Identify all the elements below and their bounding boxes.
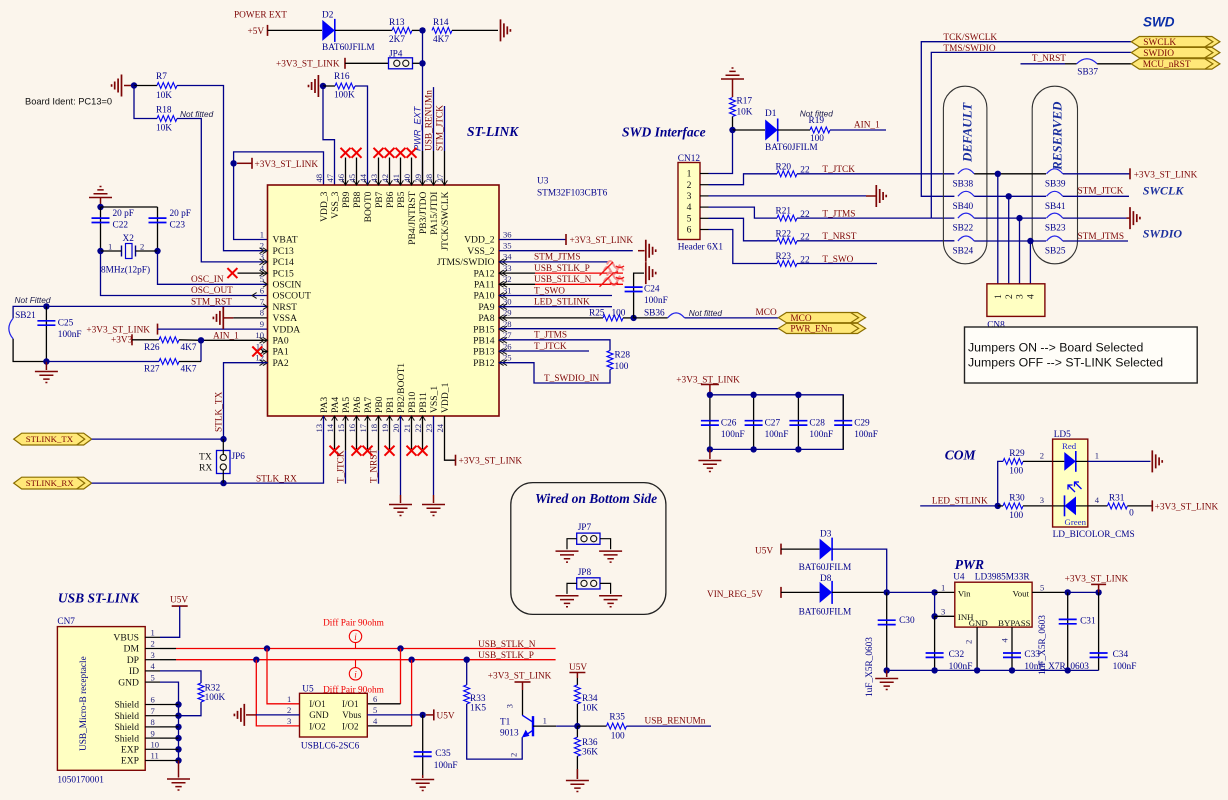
wire PA2 to JP6 (STLK_TX) bbox=[224, 363, 268, 439]
junction JP6 TX bbox=[220, 436, 226, 442]
svg-text:3: 3 bbox=[1040, 495, 1044, 505]
wire C31 vertical bbox=[1067, 592, 1069, 670]
svg-text:BYPASS: BYPASS bbox=[998, 618, 1031, 628]
svg-text:MCO: MCO bbox=[790, 314, 811, 324]
svg-text:C24: C24 bbox=[644, 285, 660, 295]
svg-text:SWD Interface: SWD Interface bbox=[622, 125, 706, 140]
svg-text:20 pF: 20 pF bbox=[113, 209, 134, 219]
junction JP4/PWR_EXT bbox=[419, 60, 425, 66]
pin arrow bottom 19 bbox=[387, 416, 393, 421]
wire R31 to +3V3 bbox=[1127, 505, 1152, 507]
ground (left of R16) bbox=[309, 75, 319, 97]
wire PB1 stub bbox=[389, 416, 391, 449]
svg-text:19: 19 bbox=[380, 424, 390, 433]
svg-text:2: 2 bbox=[151, 639, 155, 649]
ground stub C25 bbox=[45, 362, 47, 371]
svg-text:1050170001: 1050170001 bbox=[57, 776, 104, 786]
wire pin39 black stub bbox=[422, 151, 424, 185]
svg-text:10K: 10K bbox=[582, 703, 598, 713]
wire T_NRST to SB37 bbox=[1021, 63, 1066, 65]
svg-text:T_NRST: T_NRST bbox=[1032, 54, 1066, 64]
svg-text:T_NRST: T_NRST bbox=[370, 449, 380, 483]
wire PA4 stub bbox=[334, 416, 336, 449]
svg-text:1: 1 bbox=[941, 583, 945, 593]
junction C25 bottom bbox=[43, 358, 49, 364]
svg-text:D2: D2 bbox=[322, 10, 334, 20]
svg-text:STLK_TX: STLK_TX bbox=[215, 391, 225, 432]
svg-text:VDD_2: VDD_2 bbox=[464, 235, 495, 246]
svg-text:D8: D8 bbox=[820, 574, 832, 584]
ground (C35) bbox=[411, 780, 434, 791]
svg-text:PB11: PB11 bbox=[418, 392, 429, 413]
capacitor C25 bbox=[37, 321, 55, 325]
svg-text:1: 1 bbox=[151, 628, 155, 638]
svg-text:USB_STLK_N: USB_STLK_N bbox=[534, 275, 592, 285]
svg-text:CN7: CN7 bbox=[57, 617, 75, 627]
wire top pin stub bbox=[411, 158, 413, 186]
svg-text:BOOT0: BOOT0 bbox=[363, 191, 374, 222]
svg-text:STM32F103CBT6: STM32F103CBT6 bbox=[537, 189, 608, 199]
diff-pair marker (lower) bbox=[604, 272, 624, 285]
svg-text:RX: RX bbox=[199, 462, 212, 473]
diode D3 bbox=[820, 539, 833, 560]
svg-text:2: 2 bbox=[140, 242, 144, 252]
svg-text:100: 100 bbox=[1009, 467, 1023, 477]
svg-text:36: 36 bbox=[503, 229, 512, 239]
svg-text:VBAT: VBAT bbox=[273, 235, 298, 246]
ground (JP7 right) bbox=[599, 551, 622, 562]
svg-text:1: 1 bbox=[287, 694, 291, 704]
svg-text:LED_STLINK: LED_STLINK bbox=[534, 298, 590, 308]
wire SB25 STM_JTMS bbox=[1063, 240, 1128, 242]
svg-text:10: 10 bbox=[151, 740, 160, 750]
junction rail bottom bbox=[750, 446, 756, 452]
svg-text:17: 17 bbox=[358, 423, 368, 432]
svg-text:5: 5 bbox=[151, 672, 155, 682]
power port +3V3_ST_LINK (VDD_2) bbox=[565, 234, 567, 245]
svg-text:1: 1 bbox=[543, 716, 547, 726]
wire STM_RST to NRST pin7 bbox=[13, 306, 267, 318]
jumper JP7 bbox=[577, 533, 600, 544]
svg-text:C29: C29 bbox=[854, 418, 870, 428]
ground (R17 top) bbox=[721, 68, 744, 79]
svg-text:48: 48 bbox=[314, 174, 324, 183]
svg-text:DP: DP bbox=[127, 655, 139, 666]
svg-text:Red: Red bbox=[1062, 441, 1077, 451]
wire PA7 stub bbox=[367, 416, 369, 449]
svg-text:USB ST-LINK: USB ST-LINK bbox=[58, 591, 140, 606]
junction INH bbox=[931, 613, 937, 619]
svg-text:+3V3_ST_LINK: +3V3_ST_LINK bbox=[276, 60, 340, 70]
svg-text:4: 4 bbox=[373, 716, 378, 726]
ground stub CN7 bbox=[178, 761, 180, 778]
wire C23 vertical bbox=[157, 207, 159, 251]
svg-text:VSSA: VSSA bbox=[273, 313, 298, 324]
wire T1 collector bbox=[522, 690, 524, 715]
note circle i (upper) bbox=[349, 630, 361, 642]
svg-text:45: 45 bbox=[347, 174, 357, 183]
svg-text:PA3: PA3 bbox=[319, 397, 330, 413]
wire JP7 right to ground bbox=[600, 539, 611, 550]
ground lead R7 bbox=[124, 85, 134, 87]
diff-pair marker (upper) bbox=[604, 261, 624, 274]
pin arrow bottom 18 bbox=[376, 416, 382, 421]
wire VDD_2 to +3V3 bbox=[499, 239, 566, 241]
wire INH lead bbox=[935, 615, 955, 617]
svg-text:+3V3_ST_LINK: +3V3_ST_LINK bbox=[570, 236, 634, 246]
svg-text:100K: 100K bbox=[334, 91, 355, 101]
svg-text:100nF: 100nF bbox=[58, 330, 82, 340]
power port +3V3_ST_LINK (R31) bbox=[1151, 500, 1153, 511]
svg-text:+3V3_ST_LINK: +3V3_ST_LINK bbox=[1065, 575, 1129, 585]
wire JP6 bottom pin bbox=[222, 470, 224, 483]
svg-text:PA5: PA5 bbox=[341, 397, 352, 413]
svg-text:39: 39 bbox=[413, 174, 423, 183]
svg-text:PWR_ENn: PWR_ENn bbox=[790, 325, 832, 335]
svg-text:STM_RST: STM_RST bbox=[191, 297, 232, 307]
no-connect X pin17 bbox=[363, 446, 373, 456]
svg-text:6: 6 bbox=[151, 695, 156, 705]
junction R29/R30 bbox=[995, 503, 1001, 509]
svg-text:3: 3 bbox=[687, 191, 692, 202]
svg-text:100nF: 100nF bbox=[809, 430, 833, 440]
diode D1 bbox=[765, 120, 778, 141]
svg-text:STM_JTMS: STM_JTMS bbox=[534, 253, 581, 263]
svg-text:+3V3_ST_LINK: +3V3_ST_LINK bbox=[459, 457, 523, 467]
junction R7/R18 bbox=[131, 82, 137, 88]
svg-text:18: 18 bbox=[369, 424, 379, 433]
svg-text:13: 13 bbox=[314, 424, 324, 433]
pin arrow left 2 bbox=[260, 248, 268, 254]
svg-text:NRST: NRST bbox=[273, 302, 298, 313]
wire D8 to node bbox=[832, 591, 887, 593]
svg-text:+3V3_ST_LINK: +3V3_ST_LINK bbox=[1134, 170, 1198, 180]
wire STM_JTMS bbox=[499, 261, 610, 263]
svg-text:3: 3 bbox=[151, 650, 155, 660]
wire R23 dangling bbox=[797, 263, 877, 265]
svg-text:100: 100 bbox=[615, 362, 629, 372]
svg-text:2: 2 bbox=[509, 753, 519, 757]
svg-text:35: 35 bbox=[503, 241, 512, 251]
wire to R16 bbox=[323, 85, 335, 87]
svg-text:SB23: SB23 bbox=[1045, 224, 1066, 234]
pin arrow top 41 bbox=[398, 180, 404, 185]
no-connect X top pin bbox=[374, 148, 384, 158]
svg-text:I/O2: I/O2 bbox=[309, 721, 326, 731]
svg-text:6: 6 bbox=[373, 694, 378, 704]
svg-text:DEFAULT: DEFAULT bbox=[960, 102, 975, 163]
svg-text:5: 5 bbox=[1040, 583, 1044, 593]
svg-text:100nF: 100nF bbox=[644, 296, 668, 306]
svg-text:USB_RENUMn: USB_RENUMn bbox=[424, 90, 434, 151]
svg-text:R18: R18 bbox=[156, 106, 172, 116]
MCU U3 STM32F103CBT6 body bbox=[268, 185, 500, 416]
wire to CN8 pin 4 bbox=[1029, 241, 1031, 284]
capacitor C23 bbox=[149, 218, 167, 222]
junction C31 top bbox=[1065, 589, 1071, 595]
svg-text:4: 4 bbox=[151, 661, 156, 671]
svg-text:100: 100 bbox=[611, 731, 625, 741]
svg-text:USB_Micro-B receptacle: USB_Micro-B receptacle bbox=[79, 656, 89, 751]
svg-text:21: 21 bbox=[402, 424, 412, 433]
pin arrow right 30 bbox=[499, 304, 507, 310]
wire GND/shield vertical bbox=[160, 682, 179, 760]
wire top pin stub bbox=[356, 158, 358, 186]
wire D3 to Vin node bbox=[832, 549, 887, 592]
svg-text:16: 16 bbox=[347, 423, 357, 432]
svg-text:VSS_2: VSS_2 bbox=[467, 246, 494, 257]
ESD protection U5 USBLC6-2SC6 bbox=[300, 693, 368, 737]
svg-text:OSCIN: OSCIN bbox=[273, 280, 302, 291]
wire node to R35 bbox=[577, 725, 606, 727]
svg-text:SB39: SB39 bbox=[1045, 179, 1066, 189]
svg-text:SB21: SB21 bbox=[15, 311, 36, 321]
no-connect X top pin bbox=[341, 148, 351, 158]
solder bridge SB41 bbox=[1047, 191, 1063, 196]
svg-text:CN12: CN12 bbox=[678, 154, 701, 164]
solder bridge SB25 bbox=[1047, 236, 1063, 241]
regulator U4 LD3985M33R bbox=[955, 582, 1032, 627]
wire node up to R29 bbox=[998, 461, 1003, 506]
svg-text:R30: R30 bbox=[1009, 494, 1025, 504]
no-connect X top pin bbox=[396, 148, 406, 158]
junction R16/VSS_3 bbox=[320, 83, 326, 89]
wire VIN_REG_5V to D8 bbox=[781, 591, 820, 593]
svg-text:Not fitted: Not fitted bbox=[689, 308, 723, 318]
svg-text:PB15: PB15 bbox=[473, 324, 495, 335]
svg-text:8: 8 bbox=[151, 717, 155, 727]
junction rail bottom bbox=[795, 446, 801, 452]
svg-text:Board Ident: PC13=0: Board Ident: PC13=0 bbox=[25, 97, 112, 107]
svg-text:GND: GND bbox=[309, 710, 329, 720]
svg-text:37: 37 bbox=[435, 173, 445, 182]
svg-text:PA2: PA2 bbox=[273, 358, 289, 369]
wire JP4 to PWR_EXT node bbox=[413, 62, 423, 64]
svg-text:Vout: Vout bbox=[1013, 589, 1030, 599]
wire OSC_OUT to pin6 bbox=[101, 251, 268, 296]
junction JP6 RX bbox=[220, 480, 226, 486]
junction CN8-3 bbox=[1016, 215, 1022, 221]
wire top pin stub bbox=[378, 158, 380, 186]
resistor R26 bbox=[159, 337, 179, 343]
svg-text:PB0: PB0 bbox=[374, 396, 385, 413]
wire C34 vertical bbox=[1098, 592, 1100, 670]
wire PB2/BOOT1 to ground bbox=[400, 416, 402, 495]
svg-text:PC15: PC15 bbox=[273, 268, 295, 279]
ground (VSS_1 pin23) bbox=[422, 505, 445, 516]
ground lead VSSA bbox=[223, 317, 233, 319]
svg-text:PB13: PB13 bbox=[473, 347, 495, 358]
wire VDD_1 to +3V3 bbox=[445, 416, 456, 460]
wire R22 to SB24 bbox=[797, 240, 954, 242]
svg-text:46: 46 bbox=[336, 173, 346, 182]
ground (LD5 pin1) bbox=[1152, 450, 1162, 472]
svg-text:+5V: +5V bbox=[248, 27, 265, 37]
svg-text:JTMS/SWDIO: JTMS/SWDIO bbox=[437, 257, 495, 268]
svg-text:1: 1 bbox=[260, 229, 264, 239]
pin arrow left 3 bbox=[260, 259, 268, 265]
svg-text:TX: TX bbox=[199, 452, 212, 463]
svg-text:PA4: PA4 bbox=[330, 397, 341, 413]
no-connect X pin21 bbox=[407, 446, 417, 456]
note circle i (lower) bbox=[349, 668, 361, 680]
svg-text:OSC_IN: OSC_IN bbox=[191, 275, 224, 285]
svg-text:AIN_1: AIN_1 bbox=[854, 121, 880, 131]
power port +3V3_ST_LINK (VDD_1) bbox=[455, 455, 457, 466]
wire T_JTCK (pin26) bbox=[499, 350, 589, 352]
svg-text:9013: 9013 bbox=[500, 728, 519, 738]
svg-text:STM_JTMS: STM_JTMS bbox=[1078, 232, 1125, 242]
pin arrow right 29 bbox=[499, 315, 507, 321]
svg-text:STLINK_TX: STLINK_TX bbox=[26, 434, 74, 444]
junction R34/R36/R35 bbox=[574, 723, 580, 729]
svg-text:R29: R29 bbox=[1009, 449, 1025, 459]
wire SB37 left lead bbox=[1065, 63, 1077, 65]
svg-text:SWCLK: SWCLK bbox=[1143, 38, 1176, 48]
pin arrow bottom 13 bbox=[321, 416, 327, 421]
svg-text:4K7: 4K7 bbox=[433, 35, 449, 45]
wire +3V3 to JP4 bbox=[345, 62, 389, 64]
svg-text:PB9: PB9 bbox=[341, 191, 352, 208]
svg-text:D1: D1 bbox=[765, 109, 777, 119]
svg-text:1K5: 1K5 bbox=[470, 703, 486, 713]
pin arrow right 34 bbox=[499, 259, 507, 265]
no-connect X pin16 bbox=[352, 446, 362, 456]
svg-text:C26: C26 bbox=[721, 418, 737, 428]
svg-text:PB6: PB6 bbox=[385, 191, 396, 208]
svg-text:PA0: PA0 bbox=[273, 336, 289, 347]
LED red diode (points right) bbox=[1064, 452, 1076, 471]
ground (VSS_2) bbox=[646, 240, 656, 262]
wire to CN8 pin 1 bbox=[997, 174, 999, 284]
solder bridge SB37 bbox=[1077, 59, 1098, 64]
svg-text:C31: C31 bbox=[1080, 617, 1096, 627]
svg-text:C25: C25 bbox=[58, 319, 74, 329]
wire USB_RENUMn to pin38 bbox=[433, 87, 435, 151]
svg-text:10K: 10K bbox=[156, 91, 172, 101]
svg-text:SB36: SB36 bbox=[644, 309, 665, 319]
pin arrow bottom 15 bbox=[343, 416, 349, 421]
junction C35/U5V bbox=[420, 712, 426, 718]
box Wired on Bottom Side bbox=[511, 483, 666, 615]
wire SB21 bottom bbox=[13, 339, 46, 362]
pin arrow top 42 bbox=[387, 180, 393, 185]
wire SB23 to ground bbox=[1063, 217, 1127, 219]
wire PC15 stub bbox=[238, 272, 268, 274]
svg-text:7: 7 bbox=[151, 706, 156, 716]
svg-text:2: 2 bbox=[687, 180, 692, 191]
wire C32 vertical bbox=[934, 616, 936, 670]
svg-text:U5V: U5V bbox=[755, 547, 773, 557]
pin arrow right 31 bbox=[499, 293, 507, 299]
junction DP/U5 pin4 bbox=[408, 657, 414, 663]
svg-text:Wired on Bottom Side: Wired on Bottom Side bbox=[535, 491, 657, 506]
ground (JP8 left) bbox=[556, 596, 579, 607]
wire Vout to +3V3 bbox=[1068, 591, 1099, 593]
wire X2 left lead bbox=[101, 250, 122, 252]
svg-text:U5V: U5V bbox=[170, 596, 188, 606]
svg-text:JP4: JP4 bbox=[389, 50, 403, 60]
ground (CN12 pin3) bbox=[876, 185, 886, 207]
ground (cap bank) bbox=[698, 461, 721, 472]
svg-text:PA8: PA8 bbox=[478, 313, 494, 324]
svg-text:Green: Green bbox=[1065, 517, 1087, 527]
ground stub cap bank bbox=[709, 449, 711, 459]
pin arrow right 28 bbox=[499, 326, 507, 332]
svg-text:C30: C30 bbox=[899, 616, 915, 626]
svg-text:PA12: PA12 bbox=[474, 268, 495, 279]
wire node to R36 bbox=[576, 726, 578, 737]
svg-text:R28: R28 bbox=[615, 351, 631, 361]
ground stub R17 bbox=[732, 79, 734, 97]
wire PB15 to PWR_ENn flag bbox=[499, 328, 778, 330]
wire R18 to PC14 bbox=[177, 119, 268, 262]
junction Vin bbox=[931, 589, 937, 595]
wire USB_STLK_N (pin32) bbox=[499, 283, 535, 285]
group RESERVED oval bbox=[1032, 86, 1077, 264]
resistor R13 bbox=[392, 27, 412, 33]
svg-text:C22: C22 bbox=[113, 221, 129, 231]
junction CN8-1 bbox=[995, 171, 1001, 177]
wire PB10 stub bbox=[411, 416, 413, 449]
svg-text:4: 4 bbox=[1095, 495, 1100, 505]
resistor R32 bbox=[198, 683, 204, 702]
junction DM/U5 pin6 bbox=[397, 645, 403, 651]
wire DM to U5 pin1 bbox=[267, 649, 300, 704]
svg-text:RESERVED: RESERVED bbox=[1050, 101, 1065, 171]
pin arrow bottom 21 bbox=[409, 416, 415, 421]
solder bridge SB39 bbox=[1047, 169, 1063, 174]
svg-text:Jumpers ON --> Board Selected: Jumpers ON --> Board Selected bbox=[968, 341, 1143, 355]
diode D2 bbox=[322, 20, 335, 41]
junction X2 pin2 bbox=[154, 248, 160, 254]
wire SB38 to SB39 bbox=[974, 173, 1046, 175]
svg-text:Not fitted: Not fitted bbox=[180, 109, 214, 119]
svg-text:T_JTCK: T_JTCK bbox=[337, 450, 347, 483]
junction CN8-2 bbox=[1006, 193, 1012, 199]
wire to CN8 pin 3 bbox=[1019, 218, 1021, 284]
svg-text:5: 5 bbox=[687, 213, 692, 224]
wire R25 to node bbox=[623, 317, 634, 319]
wire base to R34/R36 node bbox=[556, 725, 577, 727]
capacitor C33 bbox=[1003, 653, 1021, 657]
ground (JP8 right) bbox=[599, 596, 622, 607]
resistor R22 bbox=[777, 238, 797, 244]
solder bridge SB22 bbox=[958, 213, 974, 218]
ground lead R16 bbox=[320, 85, 323, 87]
svg-text:23: 23 bbox=[424, 424, 434, 433]
wire R16 to BOOT0 pin44 bbox=[355, 86, 368, 185]
solder bridge SB40 bbox=[958, 191, 974, 196]
pin arrow right 33 bbox=[499, 270, 507, 276]
svg-text:PB7: PB7 bbox=[374, 191, 385, 208]
junction shield bbox=[175, 701, 181, 707]
ground lead VSS_2 bbox=[638, 250, 645, 252]
svg-text:Jumpers OFF --> ST-LINK Select: Jumpers OFF --> ST-LINK Selected bbox=[968, 355, 1163, 369]
svg-text:SB38: SB38 bbox=[953, 179, 974, 189]
resistor R23 bbox=[777, 261, 797, 267]
flag MCO bbox=[778, 313, 865, 323]
svg-text:I/O1: I/O1 bbox=[309, 699, 326, 709]
connector CN8 bbox=[987, 284, 1045, 317]
pin arrow left 4 bbox=[260, 270, 268, 276]
crystal X2 bbox=[126, 244, 133, 259]
flag PWR_ENn bbox=[778, 323, 865, 333]
wire VSSA pin8 bbox=[233, 317, 267, 319]
svg-text:R32: R32 bbox=[205, 684, 221, 694]
pin arrow top 40 bbox=[409, 180, 415, 185]
ground (JP7 left) bbox=[556, 551, 579, 562]
